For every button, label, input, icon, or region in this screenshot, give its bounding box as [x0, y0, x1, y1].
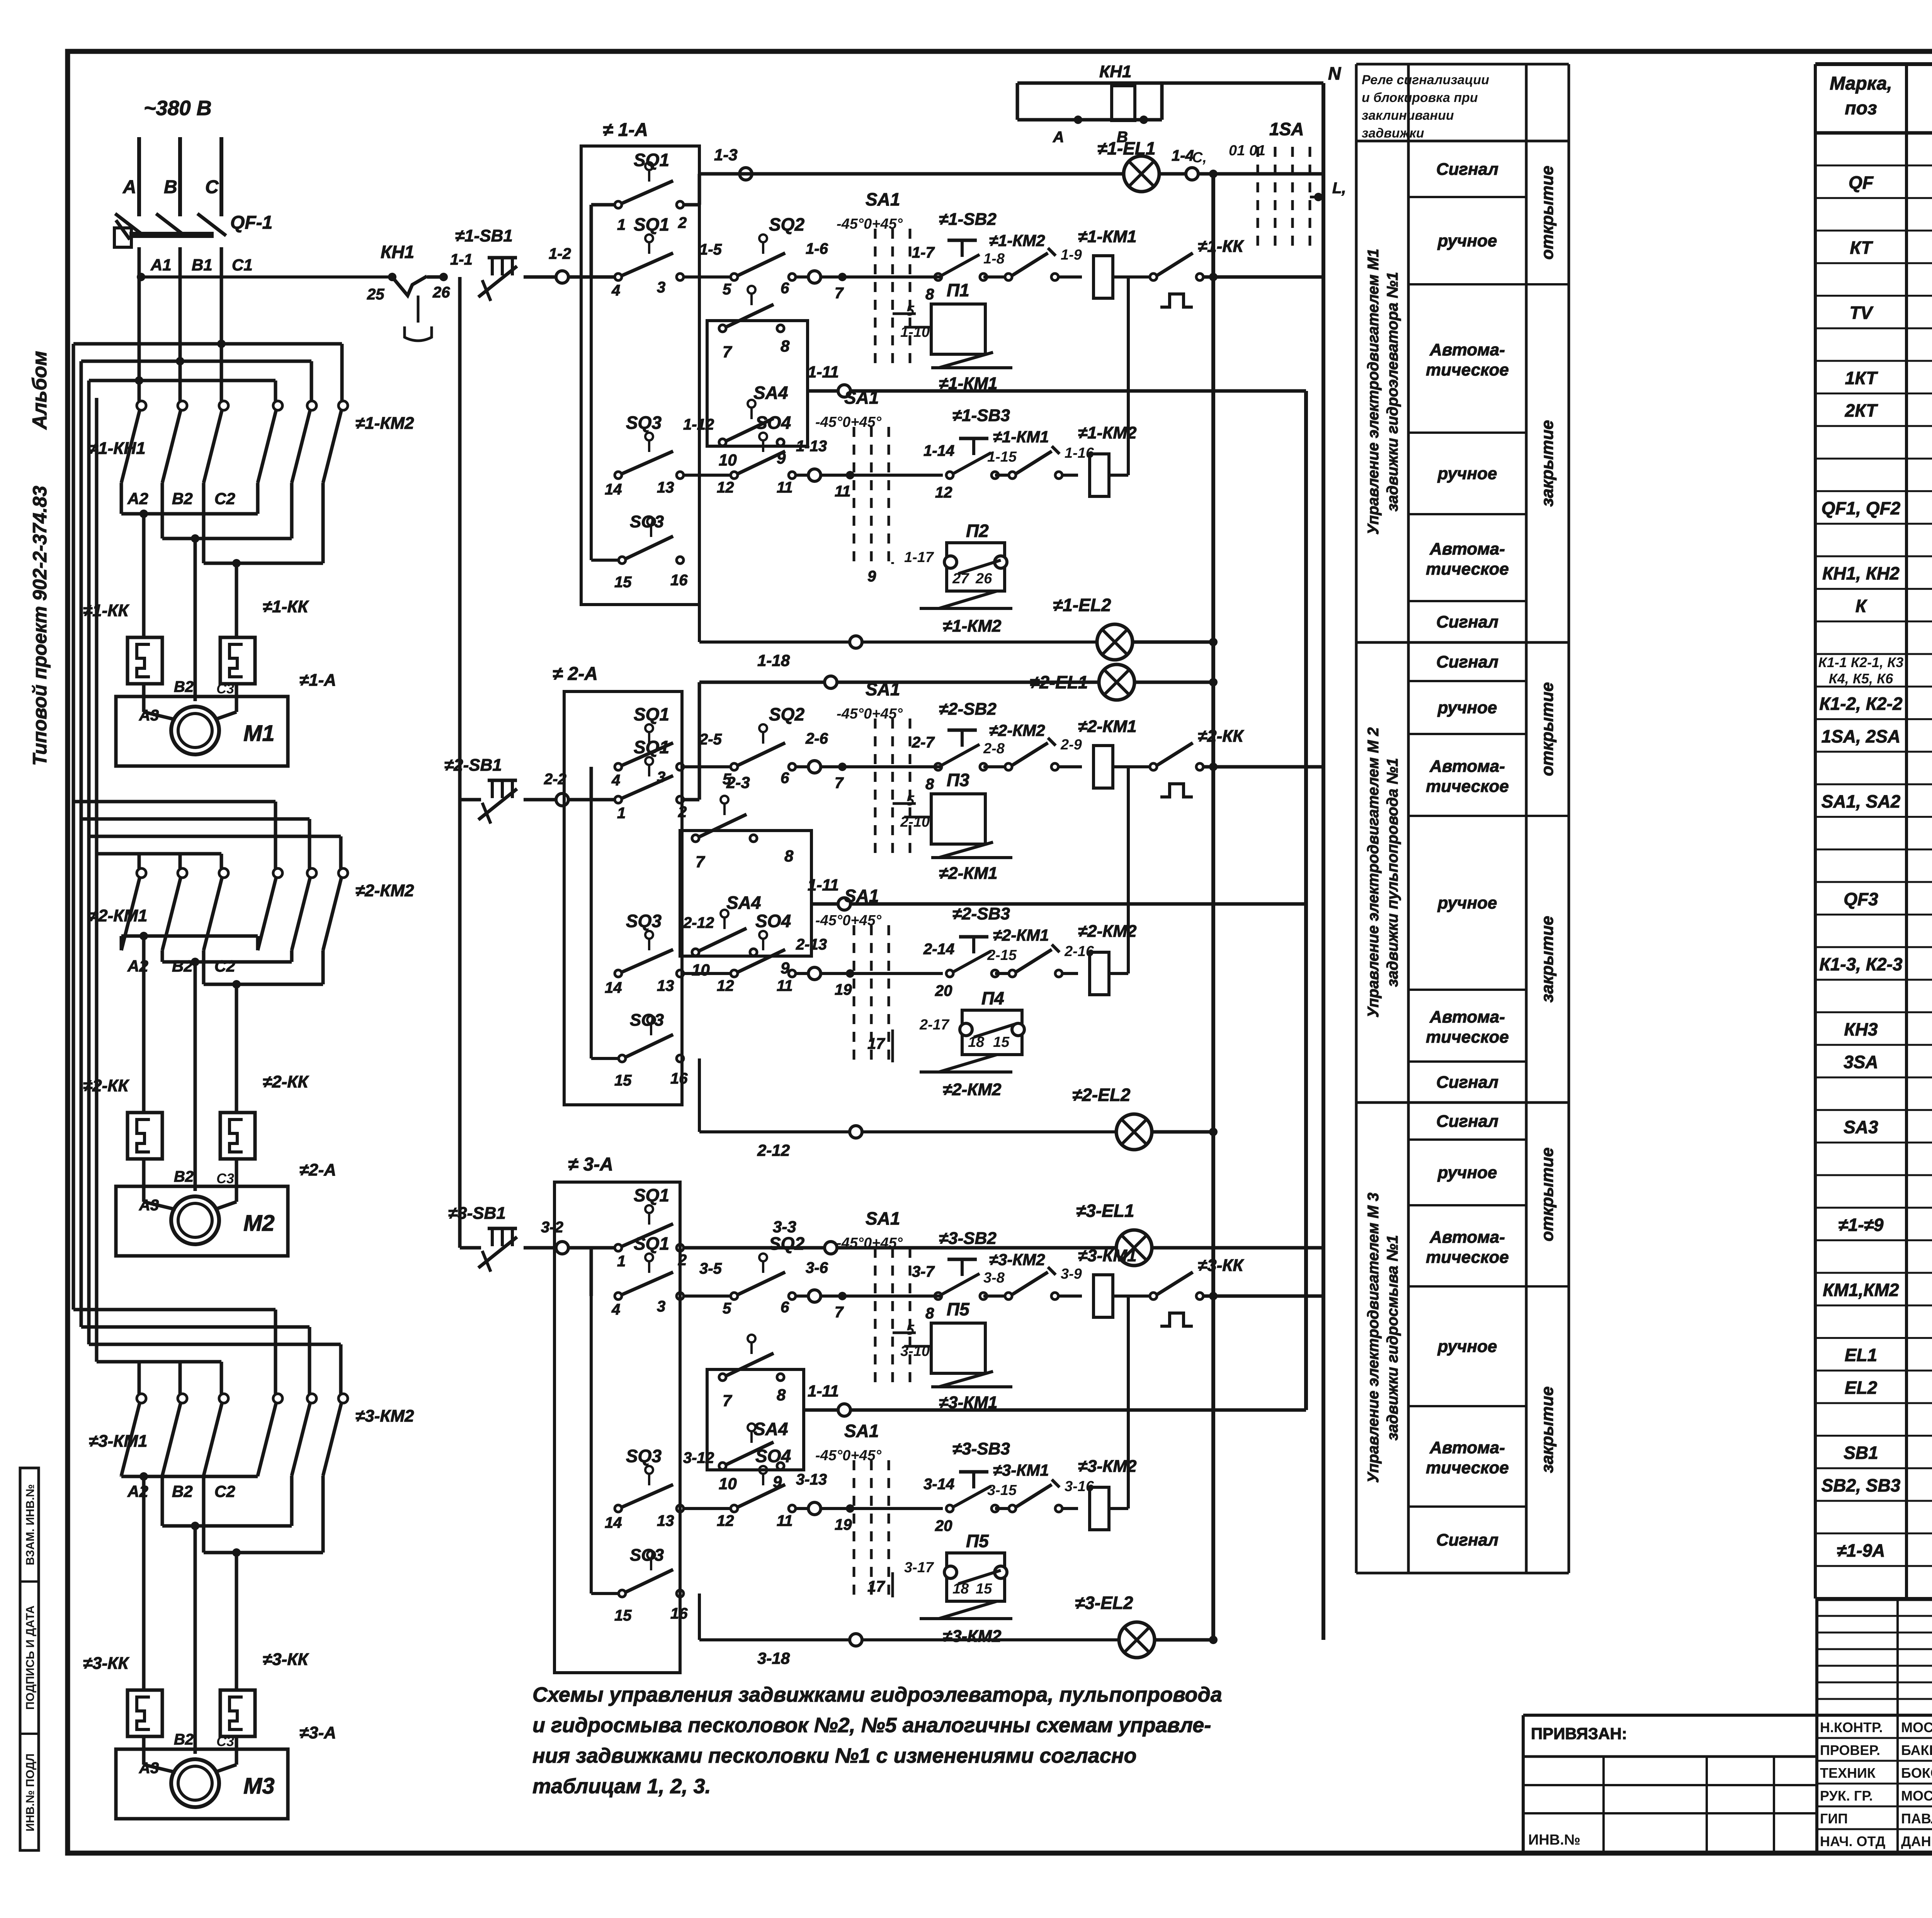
- svg-text:В2: В2: [172, 489, 193, 508]
- svg-text:С3: С3: [216, 1171, 234, 1186]
- svg-text:КН1: КН1: [381, 242, 414, 262]
- svg-text:3: 3: [657, 279, 665, 296]
- svg-text:EL1: EL1: [1845, 1345, 1877, 1365]
- svg-text:Автома-: Автома-: [1429, 1007, 1505, 1026]
- svg-text:≠1-КМ1: ≠1-КМ1: [1078, 227, 1136, 246]
- svg-text:1-1: 1-1: [450, 251, 473, 268]
- svg-text:19: 19: [835, 981, 852, 998]
- svg-text:С2: С2: [214, 489, 235, 508]
- svg-text:2-13: 2-13: [796, 936, 827, 953]
- svg-text:Марка,: Марка,: [1830, 73, 1892, 94]
- svg-text:17: 17: [867, 1578, 885, 1595]
- svg-text:А1: А1: [150, 256, 172, 274]
- svg-text:поз: поз: [1845, 98, 1877, 119]
- svg-text:открытие: открытие: [1538, 1147, 1557, 1241]
- svg-text:8: 8: [925, 286, 934, 303]
- svg-text:2-5: 2-5: [699, 731, 722, 748]
- svg-text:SQ2: SQ2: [769, 1233, 804, 1254]
- svg-text:1-15: 1-15: [987, 449, 1017, 465]
- svg-text:МОСЕЕНКО: МОСЕЕНКО: [1901, 1788, 1932, 1804]
- svg-text:Автома-: Автома-: [1429, 340, 1505, 359]
- svg-text:SО4: SО4: [755, 911, 791, 931]
- svg-text:20: 20: [935, 1517, 952, 1534]
- svg-text:1-6: 1-6: [806, 240, 828, 257]
- svg-text:1-5: 1-5: [699, 241, 722, 258]
- svg-text:SA4: SA4: [726, 893, 761, 913]
- svg-text:SО3: SО3: [630, 1011, 664, 1030]
- svg-text:≠3-КМ2: ≠3-КМ2: [989, 1250, 1045, 1269]
- svg-text:17: 17: [867, 1035, 885, 1052]
- svg-text:БОКОВА: БОКОВА: [1901, 1765, 1932, 1781]
- svg-text:Сигнал: Сигнал: [1436, 1112, 1498, 1131]
- svg-text:тическое: тическое: [1426, 560, 1509, 579]
- svg-text:В2: В2: [174, 678, 194, 695]
- svg-text:3-2: 3-2: [541, 1219, 563, 1236]
- svg-text:15: 15: [976, 1581, 992, 1597]
- svg-text:А: А: [1053, 129, 1064, 146]
- svg-text:3-14: 3-14: [923, 1476, 954, 1493]
- svg-text:БАКШЕЕВА: БАКШЕЕВА: [1901, 1742, 1932, 1758]
- svg-text:КМ1,КМ2: КМ1,КМ2: [1823, 1280, 1899, 1300]
- svg-text:SA1: SA1: [866, 189, 900, 209]
- svg-text:3-5: 3-5: [699, 1260, 722, 1277]
- svg-text:12: 12: [717, 479, 734, 496]
- svg-text:С2: С2: [214, 957, 235, 975]
- svg-text:П1: П1: [947, 280, 969, 300]
- svg-text:SQ2: SQ2: [769, 704, 804, 724]
- svg-text:1: 1: [617, 216, 626, 233]
- svg-text:≠3-SB3: ≠3-SB3: [952, 1439, 1010, 1458]
- svg-text:П5: П5: [947, 1299, 970, 1319]
- svg-text:≠2-КК: ≠2-КК: [263, 1072, 309, 1091]
- svg-text:15: 15: [614, 1607, 632, 1624]
- svg-text:2-14: 2-14: [923, 941, 954, 958]
- svg-text:9: 9: [867, 568, 876, 585]
- svg-text:1-7: 1-7: [912, 244, 935, 261]
- svg-text:Типовой проект 902-2-374.83: Типовой проект 902-2-374.83: [29, 486, 51, 766]
- svg-text:7: 7: [723, 1391, 732, 1410]
- svg-text:1-11: 1-11: [808, 876, 839, 894]
- svg-text:13: 13: [657, 1512, 674, 1529]
- svg-text:≠2-КМ2: ≠2-КМ2: [989, 721, 1045, 739]
- svg-text:≠3-EL1: ≠3-EL1: [1076, 1201, 1134, 1221]
- svg-text:≠ 1-А: ≠ 1-А: [603, 120, 648, 140]
- svg-text:6: 6: [781, 1299, 789, 1316]
- svg-text:~380 В: ~380 В: [144, 97, 212, 120]
- svg-text:11: 11: [777, 479, 793, 496]
- svg-text:≠2-КМ2: ≠2-КМ2: [355, 881, 414, 900]
- svg-text:Сигнал: Сигнал: [1436, 613, 1498, 632]
- svg-text:SA1: SA1: [866, 679, 900, 699]
- svg-text:3SA: 3SA: [1844, 1052, 1878, 1072]
- svg-text:15: 15: [993, 1034, 1010, 1050]
- svg-text:≠3-SB1: ≠3-SB1: [448, 1204, 506, 1223]
- svg-text:П5: П5: [966, 1531, 989, 1551]
- svg-text:SA1: SA1: [844, 387, 879, 408]
- svg-text:1-18: 1-18: [757, 651, 790, 669]
- svg-text:8: 8: [925, 1305, 934, 1322]
- svg-text:7: 7: [835, 775, 844, 792]
- svg-text:В2: В2: [174, 1731, 194, 1748]
- svg-text:≠1-EL2: ≠1-EL2: [1053, 595, 1111, 615]
- svg-text:закрытие: закрытие: [1538, 420, 1557, 506]
- svg-text:А2: А2: [127, 489, 148, 508]
- svg-text:тическое: тическое: [1426, 1458, 1509, 1477]
- svg-text:≠1-SB3: ≠1-SB3: [952, 406, 1010, 425]
- svg-text:SB2, SB3: SB2, SB3: [1821, 1475, 1901, 1495]
- svg-text:3-3: 3-3: [773, 1218, 796, 1236]
- svg-text:ПОДПИСЬ И ДАТА: ПОДПИСЬ И ДАТА: [24, 1605, 37, 1710]
- svg-text:М2: М2: [243, 1211, 275, 1236]
- svg-text:2-8: 2-8: [983, 741, 1005, 757]
- svg-text:1SA: 1SA: [1269, 119, 1304, 139]
- svg-text:Автома-: Автома-: [1429, 757, 1505, 776]
- svg-text:6: 6: [781, 770, 789, 787]
- svg-text:2-6: 2-6: [805, 730, 828, 747]
- svg-text:задвижки: задвижки: [1362, 126, 1424, 141]
- svg-text:10: 10: [692, 961, 710, 979]
- svg-text:≠2-А: ≠2-А: [299, 1160, 336, 1179]
- svg-text:QF3: QF3: [1844, 889, 1878, 909]
- svg-text:8: 8: [781, 337, 790, 355]
- svg-text:≠1-КМ2: ≠1-КМ2: [989, 231, 1045, 250]
- svg-text:2: 2: [678, 804, 687, 821]
- svg-text:М3: М3: [243, 1774, 275, 1799]
- svg-text:5: 5: [723, 281, 731, 298]
- svg-text:КН1: КН1: [1099, 62, 1131, 81]
- svg-text:SQ3: SQ3: [626, 413, 662, 433]
- svg-text:НАЧ. ОТД: НАЧ. ОТД: [1820, 1833, 1885, 1849]
- svg-text:закрытие: закрытие: [1538, 916, 1557, 1002]
- svg-text:3-17: 3-17: [904, 1560, 934, 1576]
- svg-text:10: 10: [719, 1475, 737, 1493]
- svg-text:≠1-КК: ≠1-КК: [83, 601, 129, 620]
- svg-text:2: 2: [678, 214, 687, 231]
- svg-text:≠1-≠9: ≠1-≠9: [1838, 1215, 1884, 1235]
- svg-text:тическое: тическое: [1426, 1248, 1509, 1267]
- svg-text:3: 3: [657, 1298, 665, 1315]
- svg-text:2-12: 2-12: [757, 1141, 790, 1159]
- svg-text:≠2-SB2: ≠2-SB2: [939, 700, 997, 719]
- svg-text:7: 7: [835, 1304, 844, 1321]
- svg-text:РУК. ГР.: РУК. ГР.: [1820, 1788, 1873, 1804]
- svg-text:5: 5: [723, 771, 731, 788]
- svg-text:12: 12: [717, 977, 734, 994]
- svg-text:В1: В1: [192, 256, 213, 274]
- svg-text:1SA, 2SA: 1SA, 2SA: [1821, 726, 1901, 746]
- svg-text:задвижки пульпопровода №1: задвижки пульпопровода №1: [1384, 758, 1401, 987]
- svg-text:В: В: [164, 177, 177, 197]
- svg-text:Управление электродвигателем: Управление электродвигателем М 3: [1365, 1193, 1382, 1483]
- svg-text:2-9: 2-9: [1060, 737, 1082, 753]
- svg-text:ручное: ручное: [1437, 1337, 1497, 1356]
- svg-text:ТЕХНИК: ТЕХНИК: [1820, 1765, 1876, 1781]
- svg-text:ручное: ручное: [1437, 698, 1497, 717]
- svg-text:А3: А3: [139, 1760, 159, 1777]
- svg-text:≠1-КК: ≠1-КК: [1198, 237, 1244, 256]
- svg-text:≠1-КМ2: ≠1-КМ2: [355, 414, 414, 433]
- svg-text:и гидросмыва песколовок №2,: и гидросмыва песколовок №2, №5 аналогичн…: [532, 1714, 1211, 1737]
- svg-text:SQ1: SQ1: [634, 1233, 669, 1254]
- svg-text:С1: С1: [232, 256, 253, 274]
- svg-text:≠1-SB2: ≠1-SB2: [939, 210, 997, 229]
- svg-text:12: 12: [935, 484, 952, 501]
- svg-text:13: 13: [657, 479, 674, 496]
- svg-text:≠2-SB3: ≠2-SB3: [952, 904, 1010, 923]
- svg-text:Н.КОНТР.: Н.КОНТР.: [1820, 1719, 1883, 1735]
- svg-text:QF1, QF2: QF1, QF2: [1821, 498, 1901, 518]
- svg-text:МОСЕЕНКО: МОСЕЕНКО: [1901, 1719, 1932, 1735]
- svg-text:14: 14: [605, 979, 622, 996]
- svg-text:5: 5: [906, 303, 915, 319]
- svg-text:11: 11: [777, 1512, 793, 1529]
- svg-text:SA1: SA1: [844, 886, 879, 906]
- svg-text:3: 3: [657, 769, 665, 786]
- svg-text:С3: С3: [216, 1733, 234, 1749]
- svg-text:Реле сигнализации: Реле сигнализации: [1362, 73, 1489, 87]
- svg-text:≠3-КМ2: ≠3-КМ2: [943, 1627, 1002, 1646]
- svg-text:ГИП: ГИП: [1820, 1811, 1848, 1826]
- svg-text:SA3: SA3: [1844, 1117, 1878, 1137]
- svg-text:SQ1: SQ1: [634, 704, 669, 724]
- svg-text:Альбом: Альбом: [29, 351, 51, 430]
- svg-text:Сигнал: Сигнал: [1436, 1073, 1498, 1092]
- svg-text:SQ3: SQ3: [626, 911, 662, 931]
- svg-text:N: N: [1328, 63, 1341, 83]
- svg-text:Схемы управления задвижками: Схемы управления задвижками гидроэлевато…: [532, 1683, 1222, 1706]
- svg-text:15: 15: [614, 1072, 632, 1089]
- svg-text:К1-3, К2-3: К1-3, К2-3: [1819, 954, 1903, 974]
- svg-text:ручное: ручное: [1437, 464, 1497, 483]
- svg-text:TV: TV: [1850, 303, 1874, 323]
- svg-text:6: 6: [781, 280, 789, 297]
- svg-text:3-18: 3-18: [757, 1649, 790, 1667]
- svg-text:≠2-КМ1: ≠2-КМ1: [89, 906, 147, 925]
- svg-text:П4: П4: [981, 988, 1004, 1008]
- svg-text:Сигнал: Сигнал: [1436, 1531, 1498, 1549]
- svg-text:11: 11: [835, 483, 851, 500]
- svg-text:3-12: 3-12: [683, 1449, 714, 1466]
- svg-text:ручное: ручное: [1437, 894, 1497, 912]
- svg-text:ВЗАМ. ИНВ.№: ВЗАМ. ИНВ.№: [24, 1484, 37, 1565]
- svg-text:К: К: [1855, 596, 1867, 616]
- svg-text:SA4: SA4: [753, 1419, 788, 1439]
- svg-text:2-7: 2-7: [912, 734, 935, 751]
- svg-text:3-15: 3-15: [987, 1482, 1017, 1498]
- svg-text:≠2-КК: ≠2-КК: [1198, 727, 1244, 746]
- svg-text:Сигнал: Сигнал: [1436, 160, 1498, 179]
- svg-text:≠2-EL1: ≠2-EL1: [1030, 672, 1088, 692]
- svg-text:ния задвижками песколовки: ния задвижками песколовки №1 с изменения…: [532, 1744, 1136, 1767]
- svg-text:SA1: SA1: [866, 1208, 900, 1228]
- svg-text:≠ 2-А: ≠ 2-А: [553, 664, 598, 684]
- svg-text:SО3: SО3: [630, 1546, 664, 1565]
- svg-text:Автома-: Автома-: [1429, 1438, 1505, 1457]
- svg-text:SО3: SО3: [630, 512, 664, 531]
- svg-text:Автома-: Автома-: [1429, 1228, 1505, 1247]
- svg-text:14: 14: [605, 1514, 622, 1531]
- svg-text:4: 4: [611, 1301, 620, 1318]
- svg-text:12: 12: [717, 1512, 734, 1529]
- svg-text:EL2: EL2: [1845, 1378, 1878, 1398]
- svg-text:1-4: 1-4: [1172, 147, 1194, 164]
- svg-text:В2: В2: [172, 957, 193, 975]
- svg-text:4: 4: [611, 282, 620, 299]
- svg-text:открытие: открытие: [1538, 166, 1557, 260]
- svg-text:1-13: 1-13: [796, 438, 827, 455]
- svg-text:QF: QF: [1849, 172, 1874, 192]
- svg-text:SB1: SB1: [1844, 1443, 1878, 1463]
- svg-text:SQ2: SQ2: [769, 214, 804, 234]
- svg-text:16: 16: [670, 1070, 688, 1087]
- svg-text:SО4: SО4: [755, 413, 791, 433]
- svg-text:2-17: 2-17: [919, 1017, 950, 1033]
- svg-text:П2: П2: [966, 521, 989, 541]
- svg-text:5: 5: [906, 793, 915, 809]
- svg-text:SQ1: SQ1: [634, 214, 669, 234]
- svg-text:ПРИВЯЗАН:: ПРИВЯЗАН:: [1531, 1724, 1627, 1743]
- svg-text:13: 13: [657, 977, 674, 994]
- svg-text:С3: С3: [216, 681, 234, 697]
- svg-text:≠1-КМ1: ≠1-КМ1: [993, 428, 1049, 446]
- svg-text:ручное: ручное: [1437, 231, 1497, 250]
- svg-text:2КТ: 2КТ: [1845, 401, 1878, 421]
- svg-text:16: 16: [670, 1605, 688, 1622]
- svg-text:≠3-КМ2: ≠3-КМ2: [355, 1407, 414, 1425]
- svg-text:≠2-SB1: ≠2-SB1: [444, 756, 502, 775]
- svg-text:тическое: тическое: [1426, 777, 1509, 796]
- svg-text:7: 7: [696, 853, 705, 871]
- svg-text:3-13: 3-13: [796, 1471, 827, 1488]
- svg-text:3-6: 3-6: [806, 1259, 828, 1276]
- svg-text:11: 11: [777, 977, 793, 994]
- svg-text:≠3-КМ1: ≠3-КМ1: [993, 1461, 1049, 1479]
- svg-text:7: 7: [835, 285, 844, 302]
- svg-text:8: 8: [777, 1386, 786, 1404]
- svg-text:3-9: 3-9: [1061, 1266, 1082, 1282]
- svg-text:1: 1: [617, 805, 626, 822]
- svg-text:К1-1 К2-1, К3: К1-1 К2-1, К3: [1818, 654, 1903, 670]
- svg-text:≠1-SB1: ≠1-SB1: [455, 226, 513, 245]
- svg-text:QF-1: QF-1: [230, 212, 272, 233]
- svg-text:таблицам 1, 2, 3.: таблицам 1, 2, 3.: [532, 1775, 711, 1798]
- svg-text:1КТ: 1КТ: [1845, 368, 1878, 388]
- svg-text:3-7: 3-7: [912, 1263, 935, 1280]
- svg-text:открытие: открытие: [1538, 682, 1557, 776]
- svg-text:ПРОВЕР.: ПРОВЕР.: [1820, 1742, 1880, 1758]
- svg-text:≠1-КК: ≠1-КК: [263, 597, 309, 616]
- svg-text:≠ 3-А: ≠ 3-А: [568, 1154, 613, 1175]
- svg-text:Сигнал: Сигнал: [1436, 652, 1498, 671]
- svg-text:и блокировка при: и блокировка при: [1362, 90, 1478, 105]
- svg-text:≠3-КК: ≠3-КК: [263, 1650, 309, 1669]
- svg-text:01 01: 01 01: [1229, 143, 1265, 159]
- svg-text:≠2-КМ1: ≠2-КМ1: [939, 864, 997, 883]
- svg-text:≠3-КК: ≠3-КК: [1198, 1256, 1244, 1275]
- svg-text:С2: С2: [214, 1482, 235, 1500]
- svg-text:≠1-EL1: ≠1-EL1: [1097, 138, 1156, 158]
- svg-text:3-8: 3-8: [983, 1270, 1005, 1286]
- svg-text:≠3-SB2: ≠3-SB2: [939, 1229, 997, 1248]
- svg-text:SQ1: SQ1: [634, 150, 669, 170]
- svg-text:1-9: 1-9: [1061, 247, 1082, 263]
- svg-text:2: 2: [678, 1252, 687, 1269]
- svg-text:26: 26: [975, 571, 992, 587]
- svg-text:А3: А3: [139, 1197, 159, 1214]
- svg-text:ручное: ручное: [1437, 1163, 1497, 1182]
- svg-text:≠1-КМ2: ≠1-КМ2: [943, 617, 1002, 635]
- svg-text:заклинивании: заклинивании: [1362, 108, 1454, 123]
- svg-text:ИНВ.№ ПОДЛ: ИНВ.№ ПОДЛ: [24, 1753, 37, 1831]
- svg-text:25: 25: [367, 286, 384, 303]
- svg-text:≠1-КН1: ≠1-КН1: [89, 439, 146, 458]
- svg-text:закрытие: закрытие: [1538, 1386, 1557, 1473]
- svg-text:тическое: тическое: [1426, 360, 1509, 379]
- svg-text:1-11: 1-11: [808, 363, 839, 381]
- svg-text:КТ: КТ: [1850, 238, 1874, 258]
- svg-text:ПАВЛОВА: ПАВЛОВА: [1901, 1811, 1932, 1826]
- svg-text:1: 1: [617, 1253, 626, 1270]
- svg-text:5: 5: [906, 1322, 915, 1338]
- svg-text:Автома-: Автома-: [1429, 540, 1505, 559]
- svg-text:26: 26: [432, 284, 450, 301]
- svg-text:L,: L,: [1332, 180, 1346, 197]
- svg-text:≠2-КМ1: ≠2-КМ1: [993, 926, 1049, 944]
- svg-text:2-12: 2-12: [683, 914, 714, 931]
- svg-text:8: 8: [784, 847, 794, 865]
- svg-text:≠1-А: ≠1-А: [299, 671, 336, 690]
- svg-text:Управление электродвигателем: Управление электродвигателем М 2: [1365, 727, 1382, 1018]
- svg-text:В2: В2: [172, 1482, 193, 1500]
- svg-text:задвижки гидросмыва №1: задвижки гидросмыва №1: [1384, 1235, 1401, 1441]
- svg-text:1-12: 1-12: [683, 416, 714, 433]
- svg-text:SQ1: SQ1: [634, 1185, 669, 1205]
- svg-text:20: 20: [935, 982, 952, 999]
- svg-text:≠2-EL2: ≠2-EL2: [1072, 1085, 1131, 1105]
- svg-text:А3: А3: [139, 707, 159, 724]
- svg-text:7: 7: [723, 343, 732, 361]
- svg-text:4: 4: [611, 772, 620, 789]
- svg-text:SQ3: SQ3: [626, 1446, 662, 1466]
- svg-text:SО4: SО4: [755, 1446, 791, 1466]
- svg-text:SA4: SA4: [753, 383, 788, 403]
- svg-text:ДАНИЛОВ: ДАНИЛОВ: [1901, 1833, 1932, 1849]
- svg-text:≠3-КМ1: ≠3-КМ1: [89, 1432, 147, 1451]
- svg-text:тическое: тическое: [1426, 1028, 1509, 1046]
- svg-text:ИНВ.№: ИНВ.№: [1528, 1832, 1580, 1848]
- svg-text:С: С: [205, 177, 219, 197]
- svg-text:5: 5: [723, 1300, 731, 1317]
- svg-text:2-15: 2-15: [987, 947, 1017, 963]
- svg-text:Управление электродвигателем: Управление электродвигателем М1: [1365, 249, 1382, 535]
- svg-text:C,: C,: [1192, 149, 1207, 166]
- svg-text:КН3: КН3: [1844, 1019, 1878, 1040]
- svg-text:SA1: SA1: [844, 1421, 879, 1441]
- svg-text:16: 16: [670, 572, 688, 589]
- svg-text:≠1-9А: ≠1-9А: [1837, 1541, 1885, 1561]
- svg-text:1-11: 1-11: [808, 1382, 839, 1400]
- svg-text:≠3-КМ1: ≠3-КМ1: [1078, 1246, 1136, 1265]
- svg-text:К1-2, К2-2: К1-2, К2-2: [1819, 693, 1903, 714]
- svg-text:SA1, SA2: SA1, SA2: [1821, 791, 1901, 811]
- svg-text:≠2-КК: ≠2-КК: [83, 1076, 129, 1095]
- svg-text:15: 15: [614, 574, 632, 591]
- svg-text:≠3-КК: ≠3-КК: [83, 1654, 129, 1673]
- svg-text:КН1, КН2: КН1, КН2: [1822, 563, 1900, 583]
- svg-text:≠3-А: ≠3-А: [299, 1723, 336, 1742]
- svg-text:≠2-КМ1: ≠2-КМ1: [1078, 717, 1136, 736]
- svg-text:задвижки гидроэлеватора №1: задвижки гидроэлеватора №1: [1384, 272, 1401, 511]
